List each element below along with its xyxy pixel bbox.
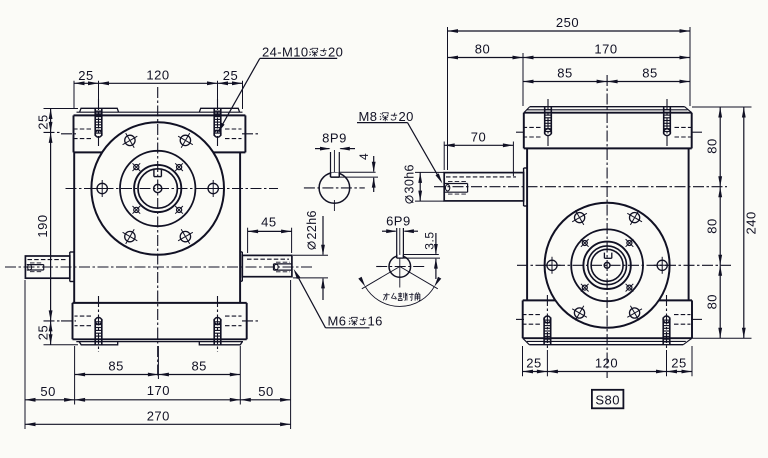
svg-text:8P9: 8P9 (322, 131, 347, 146)
svg-text:S80: S80 (595, 392, 620, 407)
svg-text:50: 50 (258, 384, 273, 399)
svg-text:70: 70 (471, 129, 486, 144)
svg-text:120: 120 (146, 67, 169, 82)
svg-text:240: 240 (743, 211, 758, 234)
svg-text:25: 25 (78, 68, 93, 83)
svg-text:80: 80 (475, 41, 490, 56)
svg-text:80: 80 (705, 294, 720, 309)
svg-text:25: 25 (223, 68, 238, 83)
svg-text:6P9: 6P9 (386, 214, 411, 229)
svg-text:20: 20 (399, 109, 414, 124)
svg-text:25: 25 (36, 114, 51, 129)
svg-text:50: 50 (40, 384, 55, 399)
svg-text:250: 250 (556, 15, 579, 30)
svg-text:4: 4 (357, 153, 371, 160)
svg-text:3.5: 3.5 (422, 232, 436, 250)
svg-text:170: 170 (147, 383, 170, 398)
svg-text:80: 80 (705, 138, 720, 153)
svg-text:M6: M6 (328, 314, 347, 329)
svg-text:80: 80 (705, 218, 720, 233)
svg-text:30h6: 30h6 (403, 164, 417, 193)
svg-text:24-M10: 24-M10 (262, 45, 308, 60)
svg-text:25: 25 (526, 355, 541, 370)
svg-text:270: 270 (147, 409, 170, 424)
svg-text:170: 170 (594, 41, 617, 56)
svg-text:120: 120 (595, 355, 618, 370)
svg-text:M8: M8 (359, 109, 378, 124)
svg-text:190: 190 (35, 214, 50, 237)
svg-text:85: 85 (191, 359, 206, 374)
svg-text:85: 85 (642, 65, 657, 80)
svg-text:20: 20 (328, 45, 343, 60)
svg-text:16: 16 (368, 314, 383, 329)
svg-text:22h6: 22h6 (305, 210, 319, 239)
svg-text:85: 85 (557, 65, 572, 80)
svg-text:25: 25 (36, 325, 51, 340)
svg-text:85: 85 (108, 359, 123, 374)
svg-text:25: 25 (671, 355, 686, 370)
svg-text:45: 45 (261, 214, 276, 229)
